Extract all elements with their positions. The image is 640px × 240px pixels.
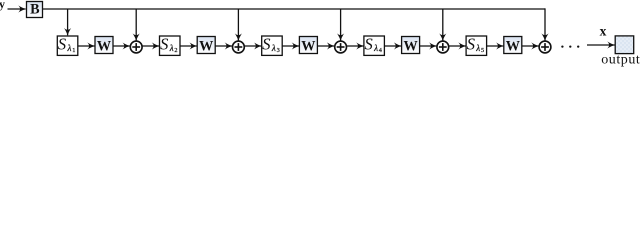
svg-text:W: W — [199, 38, 213, 54]
block W2 — [197, 37, 215, 55]
svg-text:λ: λ — [67, 43, 72, 53]
svg-text:λ: λ — [475, 43, 480, 53]
block W5 — [504, 37, 522, 55]
svg-text:output: output — [601, 53, 640, 68]
adder 2 — [233, 41, 245, 53]
svg-text:λ: λ — [169, 43, 174, 53]
svg-text:λ: λ — [271, 43, 276, 53]
wire W4 to adder4 — [420, 45, 437, 47]
svg-text:S: S — [160, 35, 168, 54]
ellipsis dots — [561, 45, 579, 47]
wire S1 to W1 — [78, 45, 95, 47]
svg-text:y: y — [0, 0, 5, 11]
svg-text:3: 3 — [277, 47, 280, 54]
block B — [27, 2, 43, 18]
svg-text:x: x — [600, 23, 607, 38]
wire adder1 to S2 — [142, 45, 159, 47]
adder 5 — [539, 41, 551, 53]
svg-text:W: W — [404, 38, 418, 54]
svg-text:S: S — [262, 35, 270, 54]
wire S3 to W3 — [282, 45, 299, 47]
block S_lambda2 — [160, 35, 181, 56]
svg-text:S: S — [365, 35, 373, 54]
wire drop into adder5 (bus end corner) — [544, 8, 546, 40]
wire x to output block — [587, 44, 615, 46]
wire adder3 to S4 — [346, 45, 363, 47]
adder 4 — [437, 41, 449, 53]
block output — [615, 36, 634, 54]
wire drop into adder2 — [237, 9, 239, 41]
wire y to B — [8, 8, 26, 10]
wire W2 to adder2 — [215, 45, 232, 47]
block S_lambda3 — [262, 35, 283, 56]
wire drop into adder4 — [442, 9, 444, 41]
wire S4 to W4 — [384, 45, 401, 47]
wire drop into S1 — [67, 9, 69, 35]
wire S5 to W5 — [487, 45, 504, 47]
svg-text:2: 2 — [174, 47, 177, 54]
wire adder4 to S5 — [449, 45, 466, 47]
wire W3 to adder3 — [317, 45, 334, 47]
svg-text:B: B — [30, 2, 40, 18]
adder 3 — [335, 41, 347, 53]
svg-text:S: S — [467, 35, 475, 54]
wire drop into adder3 — [340, 9, 342, 41]
wire S2 to W2 — [180, 45, 197, 47]
svg-text:W: W — [506, 38, 520, 54]
block S_lambda1 — [57, 35, 78, 56]
block W4 — [402, 37, 420, 55]
block W1 — [95, 37, 113, 55]
svg-text:1: 1 — [72, 47, 75, 54]
wire W1 to adder1 — [113, 45, 130, 47]
adder 1 — [130, 41, 142, 53]
bus wire from B across top — [43, 8, 546, 10]
svg-text:S: S — [58, 35, 66, 54]
wire drop into adder1 — [135, 9, 137, 41]
svg-text:W: W — [301, 38, 315, 54]
wire W5 to adder5 — [522, 45, 539, 47]
block S_lambda5 — [466, 35, 487, 56]
svg-text:λ: λ — [373, 43, 378, 53]
svg-text:W: W — [97, 38, 111, 54]
block S_lambda4 — [364, 35, 385, 56]
block W3 — [299, 37, 317, 55]
svg-text:5: 5 — [481, 47, 484, 54]
wire adder2 to S3 — [244, 45, 261, 47]
